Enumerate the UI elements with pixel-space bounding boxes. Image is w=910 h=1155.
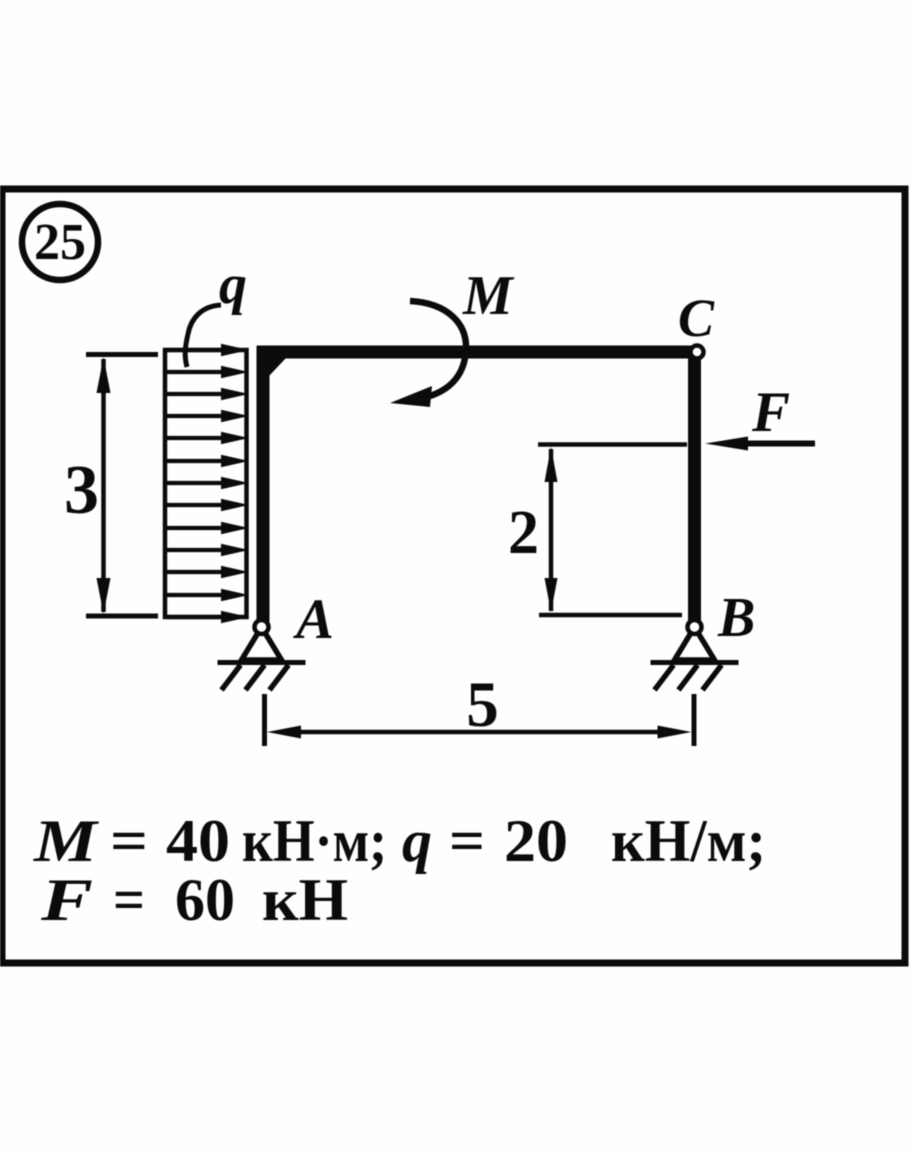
svg-text:A: A bbox=[293, 588, 334, 651]
svg-text:кН: кН bbox=[262, 867, 348, 933]
svg-text:q: q bbox=[219, 254, 247, 316]
svg-text:M: M bbox=[33, 808, 100, 874]
svg-text:кН·м;: кН·м; bbox=[242, 808, 387, 874]
svg-text:2: 2 bbox=[508, 499, 539, 567]
svg-text:q: q bbox=[402, 808, 432, 874]
svg-text:=: = bbox=[110, 808, 148, 874]
svg-text:B: B bbox=[717, 587, 755, 649]
svg-text:25: 25 bbox=[34, 214, 86, 271]
svg-text:кН/м;: кН/м; bbox=[611, 808, 766, 874]
svg-text:5: 5 bbox=[466, 669, 499, 741]
svg-text:60: 60 bbox=[175, 867, 235, 933]
svg-text:20: 20 bbox=[504, 808, 568, 874]
svg-text:=: = bbox=[449, 808, 485, 874]
svg-text:F: F bbox=[40, 867, 93, 933]
svg-text:C: C bbox=[678, 288, 715, 348]
svg-text:M: M bbox=[462, 265, 515, 327]
svg-text:40: 40 bbox=[166, 808, 230, 874]
svg-text:F: F bbox=[751, 381, 790, 444]
svg-text:=: = bbox=[113, 867, 145, 933]
svg-text:3: 3 bbox=[64, 452, 99, 529]
